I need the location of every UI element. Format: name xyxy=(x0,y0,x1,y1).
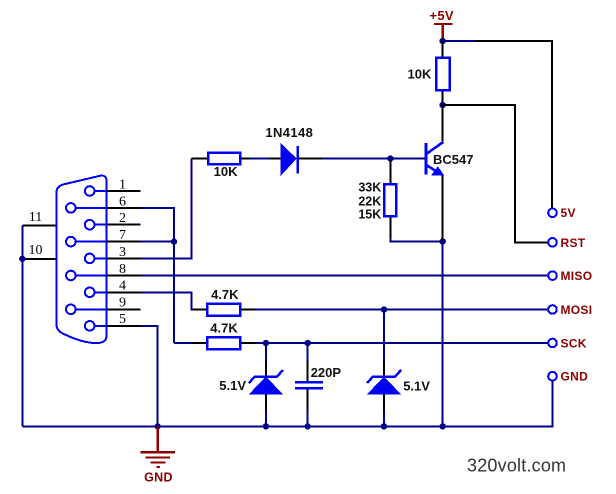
pin 4 stub xyxy=(107,291,141,293)
pin 1 stub xyxy=(107,190,141,192)
terminal MISO xyxy=(548,269,592,283)
wire pin5 to ground column xyxy=(141,326,158,427)
svg-text:320volt.com: 320volt.com xyxy=(467,456,566,476)
resistor 10K (pull-up, vertical) xyxy=(436,41,450,105)
resistor 4.7K (MOSI) xyxy=(193,304,256,316)
junction base node xyxy=(387,155,393,161)
wire bottom ground rail xyxy=(22,381,552,427)
svg-text:7: 7 xyxy=(119,228,126,243)
resistor 10K (base, horizontal) xyxy=(192,153,249,165)
junction rail emitter column xyxy=(440,423,446,429)
resistor 4.7K (SCK) xyxy=(192,337,255,349)
transistor Q1 BC547 xyxy=(426,142,444,242)
pin 5 stub xyxy=(107,325,141,327)
pin 5 circle xyxy=(85,321,107,331)
wire 33K bottom to emitter node xyxy=(390,238,442,242)
svg-text:33K: 33K xyxy=(358,181,381,195)
wire pin7 to vertical xyxy=(141,241,175,243)
svg-text:10K: 10K xyxy=(408,67,432,82)
zener D3 5.1V (MOSI) xyxy=(367,310,401,427)
svg-text:4: 4 xyxy=(119,279,126,294)
node 10 line xyxy=(22,258,56,260)
wire resistor to diode xyxy=(249,158,269,160)
svg-text:4.7K: 4.7K xyxy=(211,287,239,302)
wire pin8 to MISO terminal xyxy=(141,275,549,277)
pin 2 circle xyxy=(85,220,107,230)
svg-text:11: 11 xyxy=(29,210,42,225)
junction collector node xyxy=(440,102,446,108)
pin 7 stub xyxy=(107,241,141,243)
svg-text:5.1V: 5.1V xyxy=(219,378,246,393)
wire emitter column to bottom rail xyxy=(442,242,444,427)
junction shell node xyxy=(19,256,25,262)
pin 3 circle xyxy=(85,254,107,264)
label 33K 22K 15K xyxy=(358,181,381,222)
svg-text:BC547: BC547 xyxy=(433,152,473,167)
svg-text:+5V: +5V xyxy=(429,8,453,23)
svg-text:1: 1 xyxy=(119,177,126,192)
wire pins6/7 vertical to 4.7K (SCK) xyxy=(174,342,192,344)
diode D1 1N4148 xyxy=(269,143,323,176)
svg-text:GND: GND xyxy=(144,471,173,485)
ground symbol GND xyxy=(141,426,175,484)
svg-text:220P: 220P xyxy=(311,365,342,380)
terminal 5V xyxy=(548,206,576,220)
pin 6 circle xyxy=(66,203,107,213)
svg-text:SCK: SCK xyxy=(561,336,587,350)
wire collector node to RST column (black) xyxy=(443,105,549,242)
svg-text:6: 6 xyxy=(119,194,126,209)
wire pin6 to vertical xyxy=(141,208,175,343)
junction rail zener SCK xyxy=(263,423,269,429)
svg-text:MOSI: MOSI xyxy=(561,303,593,317)
junction rail capacitor xyxy=(305,423,311,429)
terminal GND xyxy=(548,370,588,384)
terminal RST xyxy=(548,236,586,250)
terminal SCK xyxy=(548,336,587,350)
connector J1 DB9 body xyxy=(56,176,106,344)
terminal MOSI xyxy=(548,303,592,317)
pin 9 circle xyxy=(66,305,107,315)
svg-text:2: 2 xyxy=(119,211,126,226)
pin 4 circle xyxy=(85,288,107,298)
pin 7 circle xyxy=(66,237,107,247)
svg-text:9: 9 xyxy=(119,296,126,311)
wire 4.7K to MOSI terminal xyxy=(255,309,548,311)
wire pin3 to base-resistor column xyxy=(141,159,192,259)
svg-text:5V: 5V xyxy=(561,206,576,220)
node 11 line xyxy=(22,224,56,226)
svg-text:RST: RST xyxy=(561,236,586,250)
pin 8 stub xyxy=(107,275,141,277)
pin 8 circle xyxy=(66,271,107,281)
svg-text:15K: 15K xyxy=(358,207,381,221)
svg-text:22K: 22K xyxy=(358,194,381,208)
zener D2 5.1V (SCK) xyxy=(249,343,283,426)
svg-text:8: 8 xyxy=(119,262,126,277)
resistor 33K/22K/15K (base-emitter, vertical) xyxy=(384,160,396,238)
wire shell ground (left vertical to bottom rail) xyxy=(21,225,23,426)
junction SCK zener node xyxy=(263,340,269,346)
svg-text:10: 10 xyxy=(29,243,43,258)
svg-text:GND: GND xyxy=(561,370,589,384)
pin 3 stub xyxy=(107,257,141,259)
svg-text:MISO: MISO xyxy=(561,269,593,283)
wire diode to base node xyxy=(323,158,425,160)
capacitor C1 220P xyxy=(295,343,323,426)
junction top +5V node xyxy=(440,38,446,44)
wire pin4 to 4.7K resistor xyxy=(141,292,193,309)
pin 2 stub xyxy=(107,224,141,226)
wire 4.7K to SCK terminal xyxy=(255,342,548,344)
svg-text:5: 5 xyxy=(119,312,126,327)
wire collector node down to transistor collector (black) xyxy=(442,105,444,142)
junction MOSI zener node xyxy=(381,306,387,312)
svg-text:10K: 10K xyxy=(214,164,238,179)
wire +5V node to 5V terminal (black part) xyxy=(476,41,552,208)
pin 9 stub xyxy=(107,308,141,310)
junction pin7 node xyxy=(171,238,177,244)
power +5V symbol xyxy=(429,8,453,41)
pin 1 circle xyxy=(85,186,107,196)
wire +5V node to 5V column (navy part) xyxy=(443,40,476,42)
svg-text:1N4148: 1N4148 xyxy=(265,125,313,140)
svg-text:3: 3 xyxy=(119,245,126,260)
pin 6 stub xyxy=(107,207,141,209)
svg-text:5.1V: 5.1V xyxy=(403,379,430,394)
junction emitter node xyxy=(440,238,446,244)
junction SCK capacitor node xyxy=(305,340,311,346)
svg-text:4.7K: 4.7K xyxy=(210,320,238,335)
junction rail pin5/GND xyxy=(155,423,161,429)
junction rail zener MOSI xyxy=(381,423,387,429)
